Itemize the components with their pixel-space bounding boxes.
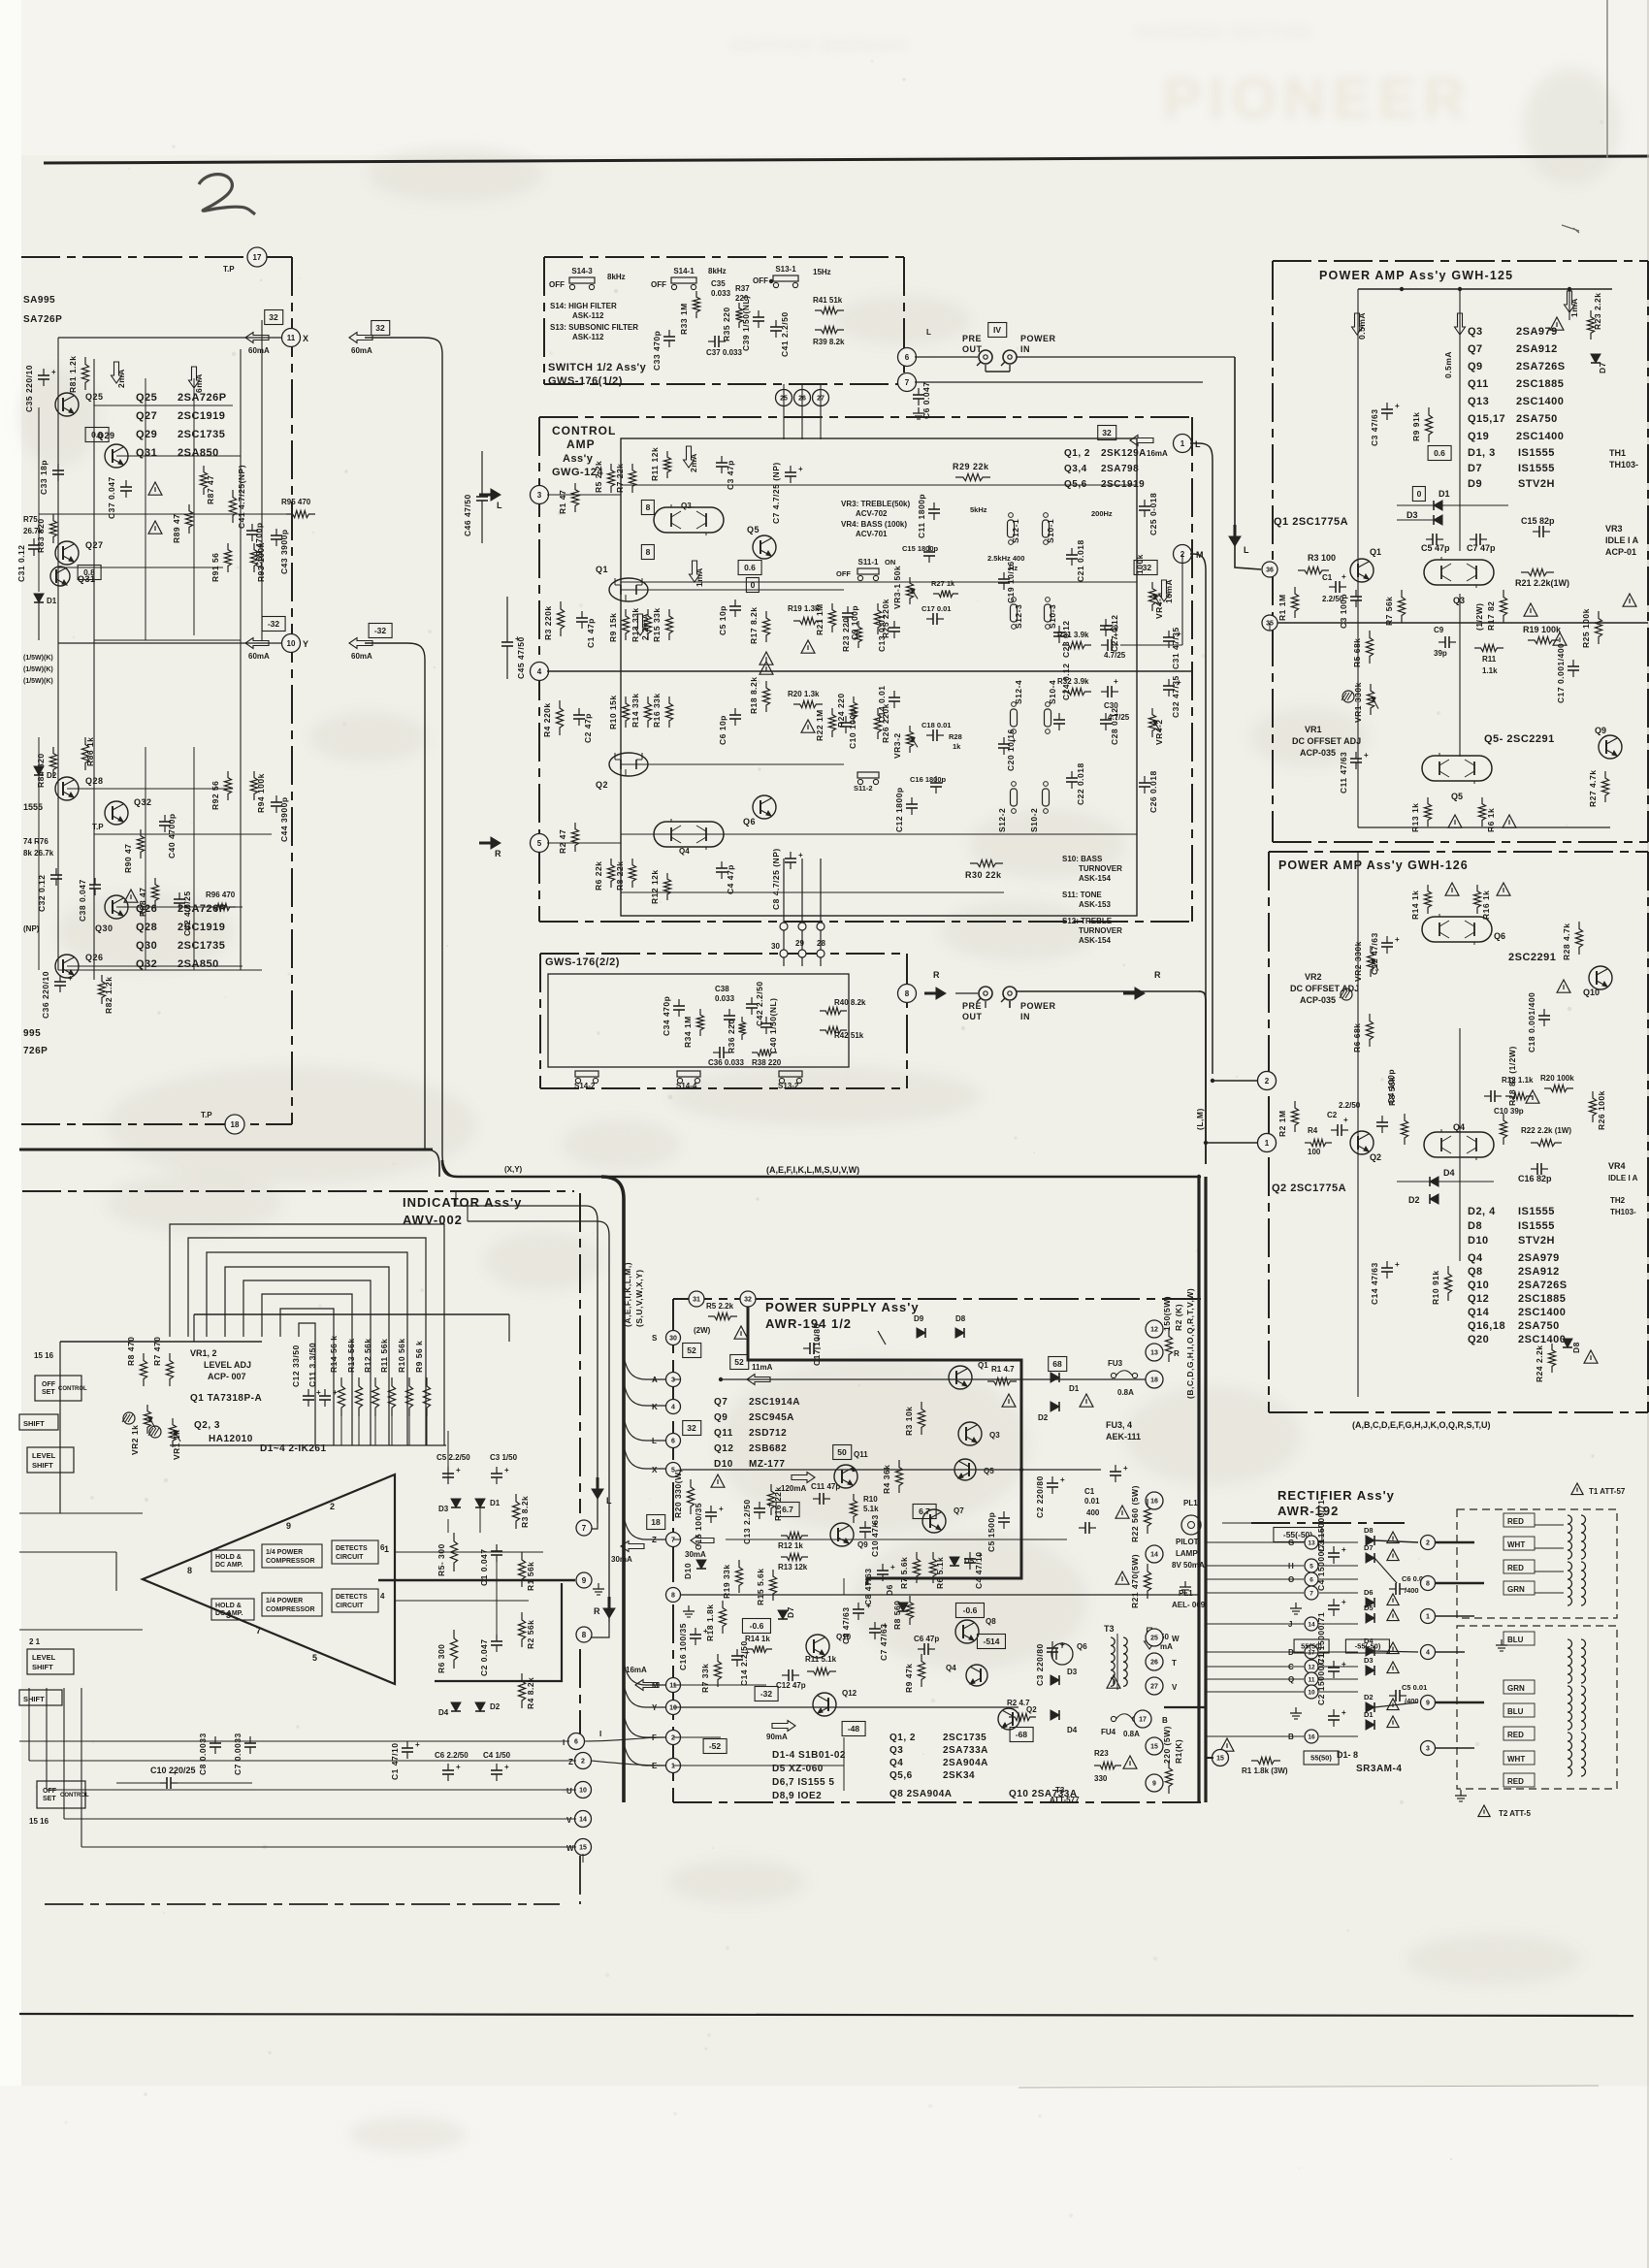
svg-text:D1: D1 bbox=[490, 1499, 501, 1507]
svg-text:GWS-176(1/2): GWS-176(1/2) bbox=[548, 375, 623, 387]
svg-text:100k: 100k bbox=[1135, 554, 1145, 574]
svg-text:R5 2.2k: R5 2.2k bbox=[594, 461, 603, 493]
svg-text:R7 5.6k: R7 5.6k bbox=[899, 1557, 909, 1589]
svg-text:C6 47p: C6 47p bbox=[914, 1635, 939, 1643]
svg-text:DC AMP.: DC AMP. bbox=[215, 1610, 242, 1617]
svg-text:32: 32 bbox=[687, 1423, 696, 1433]
svg-text:IS1555: IS1555 bbox=[1518, 463, 1555, 474]
svg-text:S13-1: S13-1 bbox=[775, 265, 796, 274]
svg-text:+: + bbox=[1364, 751, 1369, 760]
svg-text:15 16: 15 16 bbox=[29, 1817, 49, 1826]
svg-text:S10-4: S10-4 bbox=[1048, 680, 1057, 704]
svg-text:R5 2.2k: R5 2.2k bbox=[706, 1302, 734, 1311]
svg-text:F: F bbox=[652, 1733, 657, 1742]
svg-text:+: + bbox=[1342, 1598, 1346, 1606]
svg-text:R2 47: R2 47 bbox=[558, 829, 567, 854]
svg-text:0.5mA: 0.5mA bbox=[1443, 351, 1453, 378]
svg-text:GRN: GRN bbox=[1507, 1684, 1525, 1693]
svg-text:8: 8 bbox=[646, 502, 651, 512]
svg-text:R: R bbox=[1174, 1349, 1180, 1358]
svg-text:2SB682: 2SB682 bbox=[749, 1443, 787, 1454]
svg-text:R4 8.2k: R4 8.2k bbox=[526, 1677, 535, 1709]
svg-text:D6: D6 bbox=[1364, 1588, 1374, 1597]
svg-text:S12-1: S12-1 bbox=[1011, 519, 1020, 543]
svg-text:S10: BASS: S10: BASS bbox=[1062, 855, 1103, 863]
svg-text:6: 6 bbox=[905, 353, 910, 362]
svg-text:(B,C,D,G,H,I,O,Q,R,T,V,W): (B,C,D,G,H,I,O,Q,R,T,V,W) bbox=[1185, 1288, 1195, 1399]
svg-text:100: 100 bbox=[1308, 1148, 1321, 1156]
svg-text:T2 ATT-5: T2 ATT-5 bbox=[1499, 1809, 1531, 1818]
svg-text:LEVEL: LEVEL bbox=[32, 1451, 56, 1460]
svg-text:C16 1800p: C16 1800p bbox=[910, 775, 947, 784]
svg-text:11: 11 bbox=[287, 334, 296, 342]
svg-text:I: I bbox=[599, 1730, 601, 1738]
svg-text:+: + bbox=[1342, 1545, 1346, 1554]
svg-text:OFF: OFF bbox=[42, 1381, 56, 1388]
svg-text:2SA850: 2SA850 bbox=[178, 447, 219, 459]
svg-text:Q1: Q1 bbox=[978, 1361, 988, 1370]
svg-text:C12 1800p: C12 1800p bbox=[894, 787, 904, 832]
svg-text:R5- 300: R5- 300 bbox=[436, 1543, 446, 1576]
svg-text:OUT: OUT bbox=[962, 344, 983, 354]
svg-text:Q29: Q29 bbox=[136, 429, 157, 440]
svg-text:-48: -48 bbox=[848, 1724, 860, 1733]
svg-text:D4: D4 bbox=[438, 1708, 449, 1717]
svg-text:2SC1735: 2SC1735 bbox=[943, 1733, 986, 1743]
svg-text:C2 0.047: C2 0.047 bbox=[479, 1639, 489, 1677]
svg-text:C35: C35 bbox=[711, 279, 726, 288]
svg-text:2SC1885: 2SC1885 bbox=[1518, 1293, 1566, 1305]
svg-text:R81 1.2k: R81 1.2k bbox=[68, 356, 78, 394]
svg-text:TH103-: TH103- bbox=[1610, 1208, 1636, 1216]
svg-text:IS1555: IS1555 bbox=[1518, 447, 1555, 459]
svg-text:5.1k: 5.1k bbox=[863, 1505, 879, 1513]
svg-text:R27 1k: R27 1k bbox=[931, 579, 955, 588]
svg-text:30mA: 30mA bbox=[611, 1555, 632, 1564]
svg-text:0.5mA: 0.5mA bbox=[1357, 312, 1367, 340]
svg-text:D6,7 IS155 5: D6,7 IS155 5 bbox=[772, 1777, 834, 1788]
svg-text:R14 1k: R14 1k bbox=[745, 1635, 770, 1643]
svg-text:S11-2: S11-2 bbox=[854, 784, 873, 793]
svg-text:26: 26 bbox=[1150, 1660, 1158, 1667]
svg-text:X: X bbox=[303, 334, 309, 343]
svg-text:C3 15000/71: C3 15000/71 bbox=[1316, 1500, 1326, 1552]
svg-text:IS1555: IS1555 bbox=[1518, 1220, 1555, 1232]
svg-text:R6 5.1k: R6 5.1k bbox=[935, 1557, 945, 1589]
svg-text:-55(-50): -55(-50) bbox=[1355, 1642, 1381, 1651]
svg-text:Q8: Q8 bbox=[986, 1617, 996, 1626]
svg-text:+: + bbox=[456, 1466, 461, 1474]
svg-text:S12-3: S12-3 bbox=[1014, 604, 1023, 629]
svg-text:R16 1k: R16 1k bbox=[1481, 891, 1491, 920]
svg-text:6.7: 6.7 bbox=[782, 1505, 793, 1514]
svg-text:8k 26.7k: 8k 26.7k bbox=[23, 849, 54, 858]
svg-text:25: 25 bbox=[1150, 1636, 1158, 1642]
svg-text:6: 6 bbox=[574, 1739, 578, 1746]
svg-text:R14 56 k: R14 56 k bbox=[329, 1336, 339, 1374]
svg-text:+: + bbox=[333, 1388, 338, 1397]
svg-text:VR3-1 50k: VR3-1 50k bbox=[892, 566, 902, 609]
svg-text:2SA726S: 2SA726S bbox=[1518, 1280, 1568, 1291]
svg-text:R14 1k: R14 1k bbox=[1410, 891, 1420, 920]
svg-text:C33 18p: C33 18p bbox=[39, 460, 48, 495]
svg-text:R21 1M: R21 1M bbox=[815, 603, 824, 635]
svg-text:R17 82: R17 82 bbox=[1486, 601, 1496, 631]
svg-text:SR3AM-4: SR3AM-4 bbox=[1356, 1764, 1402, 1774]
svg-text:RED: RED bbox=[1507, 1731, 1524, 1739]
svg-text:11mA: 11mA bbox=[752, 1363, 773, 1372]
svg-text:Q7: Q7 bbox=[714, 1397, 727, 1408]
svg-text:C31 47/35: C31 47/35 bbox=[1171, 627, 1180, 669]
svg-text:SET: SET bbox=[43, 1796, 56, 1802]
svg-text:C1 0.047: C1 0.047 bbox=[479, 1549, 489, 1587]
svg-text:R10: R10 bbox=[863, 1495, 878, 1504]
svg-text:18: 18 bbox=[651, 1517, 661, 1527]
svg-text:C40 1/50(NL): C40 1/50(NL) bbox=[768, 998, 778, 1054]
svg-text:S: S bbox=[652, 1334, 658, 1343]
svg-text:R4: R4 bbox=[1308, 1126, 1318, 1135]
svg-text:1/4 POWER: 1/4 POWER bbox=[266, 1598, 303, 1604]
svg-text:C43 3900p: C43 3900p bbox=[279, 529, 289, 574]
svg-text:2SC1400: 2SC1400 bbox=[1518, 1334, 1566, 1345]
svg-text:R10 91k: R10 91k bbox=[1431, 1270, 1440, 1305]
svg-text:R31 3.9k: R31 3.9k bbox=[1057, 631, 1089, 639]
svg-text:C45 47/50: C45 47/50 bbox=[516, 636, 526, 679]
svg-text:R28: R28 bbox=[949, 732, 962, 741]
svg-text:DIAGRAM SECTION: DIAGRAM SECTION bbox=[1136, 24, 1312, 41]
svg-text:C3 1/50: C3 1/50 bbox=[490, 1453, 518, 1462]
svg-text:2: 2 bbox=[330, 1502, 335, 1511]
svg-text:R29 22k: R29 22k bbox=[953, 462, 989, 471]
svg-text:R4 36k: R4 36k bbox=[882, 1465, 891, 1494]
svg-text:R24 220: R24 220 bbox=[836, 693, 846, 728]
svg-text:2: 2 bbox=[671, 1735, 675, 1742]
svg-text:C37 0.033: C37 0.033 bbox=[706, 348, 742, 357]
svg-text:R42 51k: R42 51k bbox=[834, 1031, 864, 1040]
svg-text:726P: 726P bbox=[23, 1046, 48, 1056]
svg-text:R11 5.1k: R11 5.1k bbox=[805, 1655, 837, 1664]
svg-text:ACP-035: ACP-035 bbox=[1300, 748, 1336, 758]
svg-text:C14 0.01: C14 0.01 bbox=[877, 686, 887, 724]
svg-text:2SC1400: 2SC1400 bbox=[1516, 396, 1564, 407]
svg-text:R86 1k: R86 1k bbox=[85, 737, 95, 766]
svg-text:SHIFT: SHIFT bbox=[32, 1461, 53, 1470]
svg-text:R1 56k: R1 56k bbox=[526, 1562, 535, 1591]
svg-text:R12 56k: R12 56k bbox=[363, 1338, 372, 1373]
svg-text:R1 4.7: R1 4.7 bbox=[991, 1365, 1015, 1374]
svg-text:R14 33k: R14 33k bbox=[630, 693, 640, 728]
svg-text:R2 (K): R2 (K) bbox=[1174, 1304, 1183, 1331]
svg-text:Q4: Q4 bbox=[1453, 1122, 1465, 1132]
svg-text:C5 47p: C5 47p bbox=[1421, 543, 1450, 553]
svg-text:C4 47/10: C4 47/10 bbox=[974, 1552, 984, 1590]
svg-text:C35 220/10: C35 220/10 bbox=[24, 365, 34, 412]
svg-text:C37 0.047: C37 0.047 bbox=[107, 476, 116, 519]
svg-text:D8: D8 bbox=[1468, 1220, 1482, 1232]
svg-text:6: 6 bbox=[671, 1439, 675, 1445]
svg-text:FU3, 4: FU3, 4 bbox=[1106, 1420, 1132, 1430]
svg-text:D1- 8: D1- 8 bbox=[1337, 1750, 1358, 1760]
svg-text:C11 47p: C11 47p bbox=[811, 1482, 840, 1491]
svg-text:SHIFT: SHIFT bbox=[23, 1419, 45, 1428]
svg-text:R23 220: R23 220 bbox=[841, 617, 851, 652]
svg-text:Q6: Q6 bbox=[1494, 931, 1505, 941]
svg-text:2SA750: 2SA750 bbox=[1518, 1320, 1560, 1332]
svg-text:Q2, 3: Q2, 3 bbox=[194, 1420, 220, 1431]
svg-text:C36 220/10: C36 220/10 bbox=[41, 971, 50, 1019]
svg-text:C25 0-018: C25 0-018 bbox=[1148, 493, 1158, 535]
svg-text:S14-1: S14-1 bbox=[673, 267, 695, 275]
svg-text:ACP- 007: ACP- 007 bbox=[208, 1372, 246, 1381]
svg-text:LEVEL: LEVEL bbox=[32, 1653, 56, 1662]
svg-text:E: E bbox=[652, 1762, 658, 1770]
svg-text:13: 13 bbox=[1150, 1350, 1158, 1357]
svg-text:S14-2: S14-2 bbox=[574, 1082, 596, 1090]
svg-text:FU4: FU4 bbox=[1101, 1728, 1116, 1736]
svg-text:Q8: Q8 bbox=[1468, 1266, 1483, 1278]
svg-text:C36 0.033: C36 0.033 bbox=[708, 1058, 744, 1067]
svg-text:SHIFT: SHIFT bbox=[23, 1695, 45, 1703]
svg-text:+: + bbox=[703, 1627, 708, 1636]
svg-text:R92 56: R92 56 bbox=[210, 781, 220, 810]
svg-text:15Hz: 15Hz bbox=[813, 268, 831, 276]
svg-text:C17 0.001/400: C17 0.001/400 bbox=[1556, 643, 1566, 703]
svg-text:0.8A: 0.8A bbox=[1123, 1730, 1140, 1738]
svg-text:R94 100k: R94 100k bbox=[256, 773, 266, 813]
svg-text:1: 1 bbox=[1180, 439, 1185, 448]
svg-text:D10: D10 bbox=[683, 1563, 693, 1579]
svg-text:D3: D3 bbox=[1067, 1668, 1078, 1676]
svg-text:+: + bbox=[890, 1563, 895, 1571]
svg-text:74 R76: 74 R76 bbox=[23, 837, 48, 846]
svg-text:R3 100: R3 100 bbox=[1308, 553, 1336, 563]
svg-text:RED: RED bbox=[1507, 1564, 1524, 1572]
svg-text:Q5- 2SC2291: Q5- 2SC2291 bbox=[1484, 733, 1555, 745]
svg-text:OUT: OUT bbox=[962, 1012, 983, 1021]
svg-text:Q7: Q7 bbox=[954, 1507, 964, 1515]
svg-text:R8 56k: R8 56k bbox=[1387, 1077, 1397, 1106]
svg-text:RECTIFIER Ass'y: RECTIFIER Ass'y bbox=[1277, 1488, 1395, 1503]
svg-text:C15 100/35: C15 100/35 bbox=[694, 1503, 703, 1550]
svg-text:150(5W): 150(5W) bbox=[1162, 1296, 1172, 1331]
svg-text:C38: C38 bbox=[715, 985, 729, 993]
svg-text:OFF: OFF bbox=[753, 276, 768, 285]
svg-text:R6 68k: R6 68k bbox=[1352, 1023, 1362, 1053]
svg-text:Q13: Q13 bbox=[1468, 396, 1489, 407]
svg-text:2mA: 2mA bbox=[116, 369, 126, 388]
svg-text:0.033: 0.033 bbox=[711, 289, 731, 298]
svg-text:(A,E,F,I,K,L,M,): (A,E,F,I,K,L,M,) bbox=[623, 1262, 632, 1327]
svg-text:CIRCUIT: CIRCUIT bbox=[336, 1554, 364, 1561]
svg-text:I: I bbox=[563, 1738, 566, 1747]
svg-text:(A,B,C,D,E,F,G,H,J,K,O,Q,R,S,T: (A,B,C,D,E,F,G,H,J,K,O,Q,R,S,T,U) bbox=[1352, 1420, 1491, 1430]
svg-text:POWER AMP Ass'y GWH-126: POWER AMP Ass'y GWH-126 bbox=[1278, 859, 1469, 872]
svg-text:0.8: 0.8 bbox=[91, 430, 103, 439]
svg-text:TH103-: TH103- bbox=[1609, 460, 1638, 470]
svg-text:+: + bbox=[798, 465, 803, 473]
svg-text:R3 220k: R3 220k bbox=[543, 605, 553, 640]
svg-text:CIRCUIT: CIRCUIT bbox=[336, 1603, 364, 1609]
svg-text:C11 1800p: C11 1800p bbox=[917, 494, 926, 538]
svg-text:S13: SUBSONIC FILTER: S13: SUBSONIC FILTER bbox=[550, 323, 638, 332]
svg-text:2SD712: 2SD712 bbox=[749, 1428, 787, 1439]
svg-text:L: L bbox=[652, 1437, 657, 1445]
svg-text:S13-2: S13-2 bbox=[778, 1082, 799, 1090]
svg-text:2: 2 bbox=[1265, 1077, 1270, 1085]
svg-text:Q7: Q7 bbox=[1468, 343, 1483, 355]
svg-text:(S,U,V,W,X,Y): (S,U,V,W,X,Y) bbox=[634, 1269, 644, 1327]
svg-text:Q9: Q9 bbox=[714, 1412, 727, 1423]
svg-text:2: 2 bbox=[1426, 1540, 1430, 1547]
svg-text:15: 15 bbox=[1150, 1744, 1158, 1751]
svg-text:Q1 TA7318P-A: Q1 TA7318P-A bbox=[190, 1393, 262, 1404]
svg-text:10: 10 bbox=[579, 1788, 587, 1795]
svg-text:C4 1/50: C4 1/50 bbox=[483, 1751, 511, 1760]
svg-text:50: 50 bbox=[837, 1447, 847, 1457]
svg-text:T: T bbox=[1172, 1659, 1177, 1668]
svg-text:C8 4.7/25 (NP): C8 4.7/25 (NP) bbox=[771, 848, 781, 910]
svg-text:C10 39p: C10 39p bbox=[1494, 1107, 1524, 1116]
svg-text:1: 1 bbox=[671, 1764, 675, 1770]
svg-text:R16 33k: R16 33k bbox=[652, 693, 662, 728]
svg-text:Q14: Q14 bbox=[1468, 1307, 1490, 1318]
svg-text:C42 2.2/50: C42 2.2/50 bbox=[755, 981, 764, 1026]
svg-text:2SA912: 2SA912 bbox=[1518, 1266, 1560, 1278]
svg-text:15 16: 15 16 bbox=[34, 1351, 54, 1360]
svg-text:VR4-2: VR4-2 bbox=[1154, 719, 1164, 745]
svg-text:11: 11 bbox=[669, 1683, 677, 1690]
svg-text:+: + bbox=[504, 1763, 509, 1771]
svg-text:IS1555: IS1555 bbox=[1518, 1206, 1555, 1217]
svg-text:32: 32 bbox=[269, 312, 278, 322]
svg-text:C7 4.7/25 (NP): C7 4.7/25 (NP) bbox=[771, 462, 781, 524]
svg-text:Q4: Q4 bbox=[889, 1758, 903, 1768]
svg-text:R3 8.2k: R3 8.2k bbox=[520, 1496, 530, 1528]
svg-text:C12 47/63: C12 47/63 bbox=[1370, 932, 1379, 975]
svg-text:COMPRESSOR: COMPRESSOR bbox=[266, 1606, 315, 1613]
svg-text:PIONEER: PIONEER bbox=[1162, 66, 1471, 131]
svg-text:(L,M): (L,M) bbox=[1195, 1108, 1205, 1130]
svg-text:Z: Z bbox=[568, 1758, 573, 1766]
svg-text:68: 68 bbox=[1052, 1359, 1062, 1369]
svg-text:2SC1914A: 2SC1914A bbox=[749, 1397, 800, 1408]
svg-text:+: + bbox=[1395, 1260, 1400, 1269]
svg-text:8kHz: 8kHz bbox=[708, 267, 727, 275]
svg-text:17: 17 bbox=[253, 253, 262, 262]
svg-text:C20 10/16: C20 10/16 bbox=[1006, 729, 1016, 771]
svg-text:R1 1.8k (3W): R1 1.8k (3W) bbox=[1242, 1766, 1288, 1775]
svg-text:R18 8.2k: R18 8.2k bbox=[749, 677, 759, 715]
svg-text:C4 47p: C4 47p bbox=[726, 864, 735, 894]
svg-text:2SA750: 2SA750 bbox=[1516, 413, 1558, 425]
svg-text:6: 6 bbox=[1309, 1576, 1313, 1583]
svg-text:ACV-701: ACV-701 bbox=[856, 530, 888, 538]
svg-text:995: 995 bbox=[23, 1028, 41, 1039]
svg-text:ATT-577: ATT-577 bbox=[1050, 1796, 1080, 1804]
svg-text:Q32: Q32 bbox=[136, 958, 157, 970]
svg-text:R40 8.2k: R40 8.2k bbox=[834, 998, 866, 1007]
svg-text:29: 29 bbox=[795, 939, 804, 948]
svg-text:-32: -32 bbox=[760, 1689, 773, 1699]
svg-text:C3 47/63: C3 47/63 bbox=[1370, 409, 1379, 447]
svg-text:2SC1735: 2SC1735 bbox=[178, 940, 225, 952]
svg-text:L: L bbox=[1195, 439, 1201, 449]
svg-text:55(50): 55(50) bbox=[1301, 1642, 1322, 1651]
svg-text:(A,E,F,I,K,L,M,S,U,V,W): (A,E,F,I,K,L,M,S,U,V,W) bbox=[766, 1165, 859, 1175]
svg-text:R39 8.2k: R39 8.2k bbox=[813, 338, 845, 346]
svg-text:18: 18 bbox=[231, 1120, 240, 1129]
svg-text:R: R bbox=[495, 849, 501, 859]
svg-text:8: 8 bbox=[905, 989, 910, 998]
svg-text:R35 220: R35 220 bbox=[722, 307, 731, 341]
svg-text:Q4: Q4 bbox=[946, 1664, 956, 1672]
svg-text:R9 91k: R9 91k bbox=[1411, 412, 1421, 441]
svg-text:Z: Z bbox=[652, 1536, 657, 1544]
svg-text:2SA798: 2SA798 bbox=[1101, 464, 1139, 474]
svg-text:TH1: TH1 bbox=[1609, 448, 1626, 458]
svg-text:U: U bbox=[566, 1787, 572, 1796]
svg-text:Q27: Q27 bbox=[136, 410, 157, 422]
svg-text:2SC945A: 2SC945A bbox=[749, 1412, 794, 1423]
svg-text:TURNOVER: TURNOVER bbox=[1079, 926, 1122, 935]
svg-text:R32 3.9k: R32 3.9k bbox=[1057, 677, 1089, 686]
svg-text:R20 100k: R20 100k bbox=[1540, 1074, 1574, 1083]
svg-text:R25 100k: R25 100k bbox=[1581, 608, 1591, 648]
svg-text:(NP): (NP) bbox=[23, 924, 40, 933]
svg-text:C12 47p: C12 47p bbox=[776, 1681, 806, 1690]
svg-text:(1/5W)(K): (1/5W)(K) bbox=[23, 666, 53, 673]
svg-text:120mA: 120mA bbox=[781, 1484, 806, 1493]
svg-text:C34 470p: C34 470p bbox=[662, 996, 671, 1036]
svg-text:C7 47/63: C7 47/63 bbox=[879, 1624, 889, 1662]
svg-text:Q3: Q3 bbox=[1468, 326, 1483, 338]
svg-text:C14 47/63: C14 47/63 bbox=[1370, 1262, 1379, 1305]
svg-text:LEVEL ADJ: LEVEL ADJ bbox=[204, 1360, 251, 1370]
svg-text:R84 820: R84 820 bbox=[36, 753, 46, 788]
svg-text:C1: C1 bbox=[1322, 573, 1333, 582]
svg-text:+: + bbox=[1123, 1464, 1128, 1473]
svg-text:C13 2.2/50: C13 2.2/50 bbox=[742, 1499, 752, 1544]
svg-text:55(50): 55(50) bbox=[1310, 1754, 1332, 1763]
svg-text:R36 220: R36 220 bbox=[727, 1019, 736, 1053]
svg-text:16: 16 bbox=[1150, 1499, 1158, 1506]
svg-text:4.7/25: 4.7/25 bbox=[1108, 713, 1130, 722]
svg-text:+: + bbox=[1114, 677, 1118, 686]
svg-text:D4: D4 bbox=[1443, 1168, 1455, 1178]
svg-text:R13 33k: R13 33k bbox=[630, 607, 640, 642]
svg-text:POWER SUPPLY Ass'y: POWER SUPPLY Ass'y bbox=[765, 1300, 920, 1314]
svg-text:Q1: Q1 bbox=[596, 565, 608, 574]
svg-text:16mA: 16mA bbox=[626, 1666, 647, 1674]
svg-text:14: 14 bbox=[1308, 1621, 1315, 1628]
svg-text:D1-4 S1B01-02: D1-4 S1B01-02 bbox=[772, 1750, 846, 1761]
svg-text:R9 15k: R9 15k bbox=[608, 613, 618, 642]
svg-text:3: 3 bbox=[1426, 1746, 1430, 1753]
svg-text:15: 15 bbox=[1216, 1756, 1224, 1763]
svg-text:ACV-702: ACV-702 bbox=[856, 509, 888, 518]
svg-text:VR3: VR3 bbox=[1605, 524, 1623, 534]
svg-text:TH2: TH2 bbox=[1610, 1196, 1626, 1205]
svg-text:SET: SET bbox=[42, 1389, 55, 1396]
svg-text:HOLD &: HOLD & bbox=[215, 1554, 242, 1561]
svg-text:Q11: Q11 bbox=[1468, 378, 1489, 390]
svg-text:3: 3 bbox=[671, 1377, 675, 1384]
svg-text:-68: -68 bbox=[1016, 1730, 1028, 1739]
svg-text:C16 100/35: C16 100/35 bbox=[678, 1623, 688, 1670]
svg-text:2SC1400: 2SC1400 bbox=[1516, 431, 1564, 442]
svg-text:10: 10 bbox=[1308, 1689, 1315, 1696]
svg-text:36: 36 bbox=[1266, 567, 1274, 574]
